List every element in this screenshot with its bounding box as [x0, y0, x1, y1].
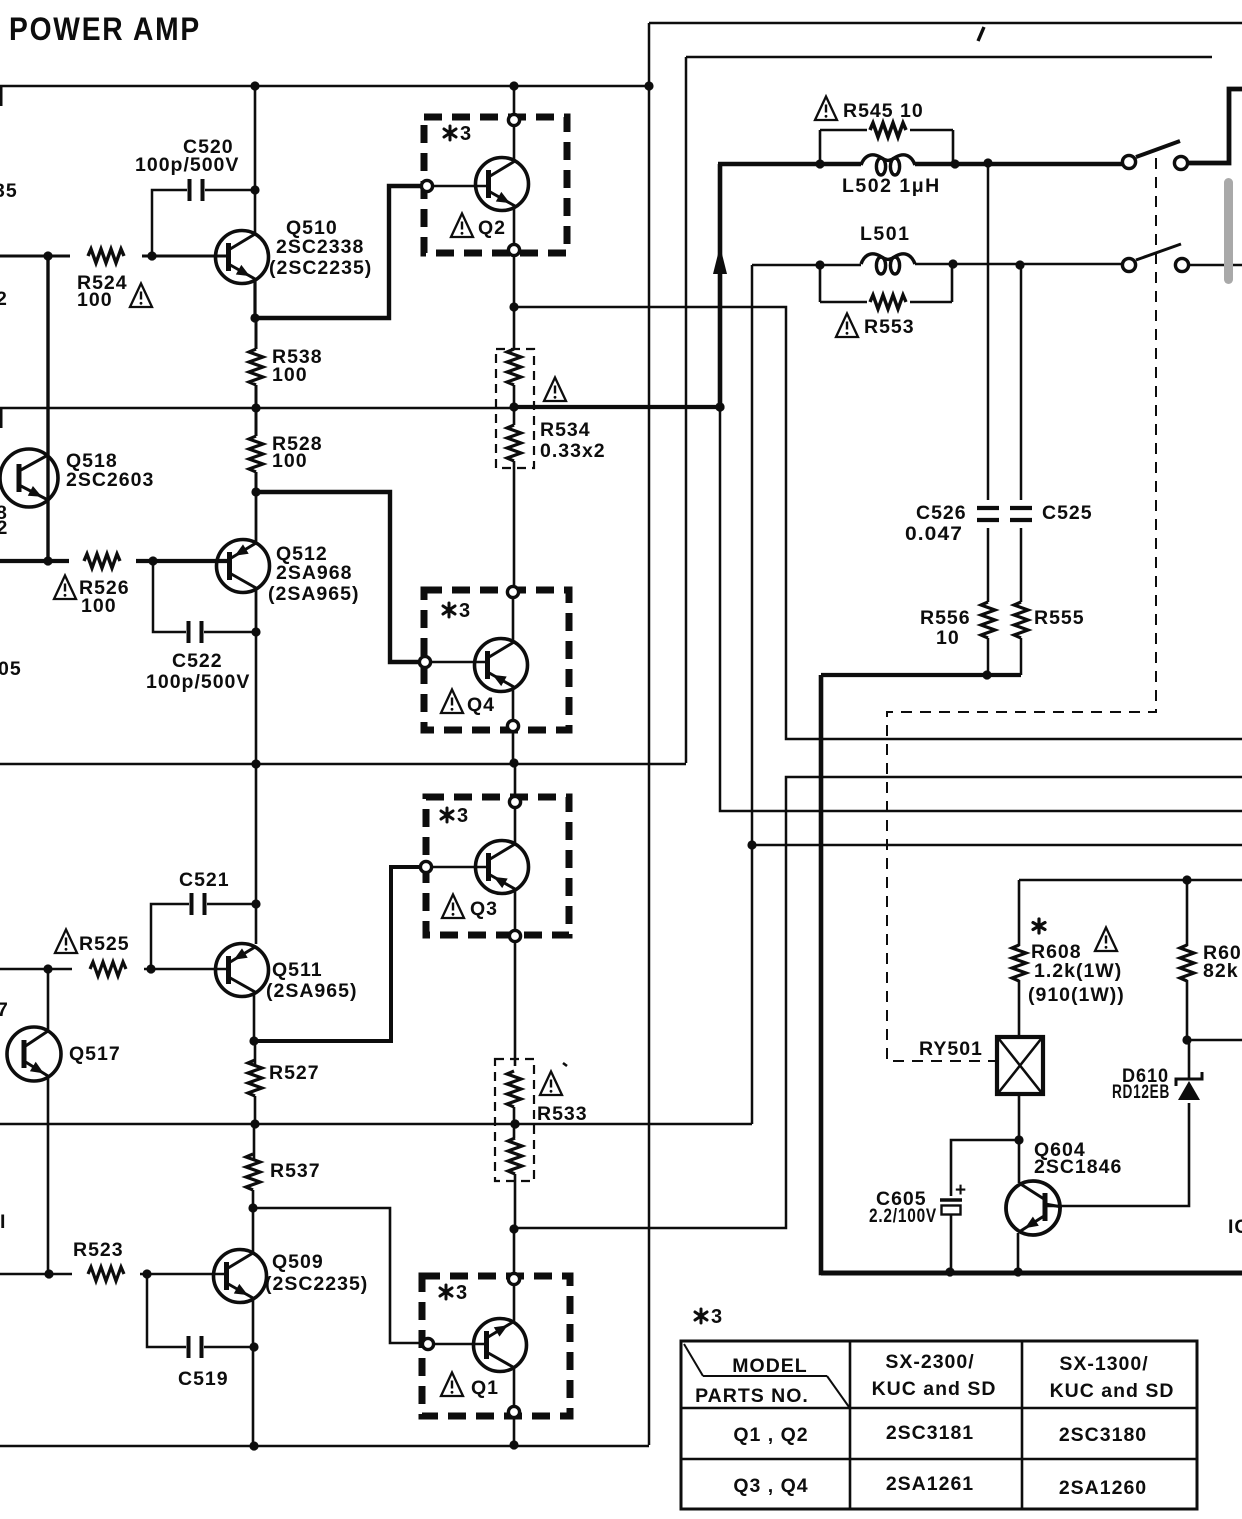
dashed box Q3 *3 [426, 797, 569, 935]
wire C520 branch [152, 190, 187, 256]
wire Q2 emitter [513, 206, 516, 243]
svg-text:3: 3 [460, 123, 471, 145]
wire Q512 base rail thick [0, 559, 230, 563]
wire L501 line right [915, 263, 1122, 266]
svg-text:3: 3 [457, 805, 468, 827]
wire C521 to collector [207, 903, 256, 906]
junction y86 end x649 [644, 81, 653, 90]
wire sense line y307 [514, 307, 1242, 739]
svg-text:C521: C521 [179, 869, 230, 891]
junction C605/rail [945, 1267, 954, 1276]
wire Q1 base lead [435, 1343, 486, 1346]
wire thick bottom rail right [821, 1271, 1242, 1276]
svg-text:3: 3 [711, 1306, 722, 1328]
transistor Q511 [216, 944, 269, 997]
svg-text:PARTS NO.: PARTS NO. [695, 1385, 809, 1407]
marker *3 Q1 box [440, 1282, 467, 1304]
wire stub left edge top [0, 86, 3, 106]
svg-text:R533: R533 [537, 1103, 588, 1125]
junction R534 mid y408 [509, 402, 518, 411]
wire Q604 emitter lead [1017, 1233, 1020, 1271]
dashed box Q2 *3 [424, 117, 567, 253]
dashed box R533 [495, 1059, 534, 1181]
svg-text:2SC3180: 2SC3180 [1059, 1424, 1147, 1446]
resistor R555 [1014, 602, 1028, 638]
wire x988 mid [987, 528, 990, 602]
node Q1 top [508, 1273, 519, 1284]
svg-text:10: 10 [936, 627, 960, 649]
svg-text:I: I [0, 1211, 6, 1233]
wire x256 y764 to Q511 [255, 764, 258, 944]
transistor Q512 [217, 540, 270, 593]
wire frame corner x649 top [648, 23, 651, 86]
wire R533 to y1229 [514, 1174, 517, 1229]
dashed box R534 [496, 349, 534, 468]
capacitor C605 (electrolytic) [940, 1200, 962, 1215]
wire Q604 collector [1047, 1103, 1189, 1206]
tick near R533 triangle [563, 1063, 567, 1066]
junction Q510 emitter branch [250, 313, 259, 322]
junction x48 base [43, 556, 52, 565]
wire Q4 top lead [512, 599, 515, 642]
svg-text:POWER AMP: POWER AMP [9, 11, 201, 47]
switch SP contact upper left [1122, 155, 1135, 168]
node Q2 base [421, 180, 432, 191]
junction x255/y1124 [250, 1119, 259, 1128]
wire branch to Q1 base [253, 1208, 421, 1343]
svg-text:100p/500V: 100p/500V [146, 671, 250, 693]
transistor Q517 [7, 1027, 61, 1081]
resistor R525 [90, 962, 126, 976]
wire thick rail x821 down [821, 675, 1242, 1273]
svg-text:2SA1261: 2SA1261 [886, 1473, 974, 1495]
svg-text:100: 100 [272, 364, 308, 386]
junction x514/y1229 [509, 1224, 518, 1233]
wire into R538 [255, 318, 258, 349]
junction C519 right [249, 1342, 258, 1351]
wire R538 to y408 [255, 385, 258, 408]
warning triangle R534 [544, 378, 566, 402]
svg-text:R556: R556 [920, 607, 971, 629]
transistor Q509 [214, 1250, 267, 1303]
wire after lower switch [1190, 264, 1242, 267]
svg-text:100p/500V: 100p/500V [135, 154, 239, 176]
wire Q510 emitter down [253, 279, 256, 318]
svg-text:Q4: Q4 [467, 694, 495, 716]
svg-text:KUC and SD: KUC and SD [1050, 1380, 1175, 1402]
transistor Q4 [475, 639, 528, 692]
wire between R533 halves [513, 1107, 516, 1138]
transistor Q510 [216, 231, 269, 284]
capacitor C525 [1010, 508, 1032, 520]
wire x514 top [513, 86, 516, 113]
junction x718 y408b [715, 402, 724, 411]
junction C526 top [983, 158, 992, 167]
svg-text:1.2k(1W): 1.2k(1W) [1034, 960, 1122, 982]
loop R545 top [820, 129, 953, 132]
junction C521 right [251, 899, 260, 908]
wire rail y408 left thin [0, 407, 514, 410]
wire sense rail y845 [752, 844, 1242, 847]
dashed relay linkage [887, 158, 1156, 1061]
svg-text:(2SC2235): (2SC2235) [265, 1273, 368, 1295]
wire between R534 halves [513, 385, 516, 425]
wire Q1 bottom lead [513, 1367, 516, 1405]
wire R609 bottom lead [1186, 980, 1189, 1040]
svg-text:0.047: 0.047 [905, 523, 963, 545]
warning triangle R545 [815, 97, 837, 121]
wire y408 to R528 [255, 408, 258, 436]
junction x256/y764 [251, 759, 260, 768]
junction C520 tap [147, 251, 156, 260]
wire y1040 to edge [1187, 1039, 1242, 1042]
node Q1 base [422, 1338, 433, 1349]
svg-text:R553: R553 [864, 316, 915, 338]
svg-text:3: 3 [456, 1282, 467, 1304]
wire base branch to C605 [951, 1140, 1019, 1196]
diode D610 (zener) [1176, 1072, 1202, 1100]
wire Q512 collector down [255, 589, 258, 632]
capacitor C522 [189, 621, 202, 643]
junction Q512 emitter [251, 487, 260, 496]
svg-text:C526: C526 [916, 502, 967, 524]
junction x514/y86 [509, 81, 518, 90]
wire Q511 base rail [0, 968, 229, 971]
warning triangle R553 [836, 314, 858, 338]
node Q4 top [507, 586, 518, 597]
transistor Q518 [0, 449, 58, 507]
svg-text:Q517: Q517 [69, 1043, 121, 1065]
wire x1021 low [1020, 638, 1023, 675]
switch contact lower right [1175, 258, 1188, 271]
junction L502 right [950, 159, 959, 168]
resistor R553 [870, 295, 906, 309]
svg-text:(2SA965): (2SA965) [268, 583, 359, 605]
loop R553 bottom [820, 301, 952, 304]
transistor Q604 [1006, 1181, 1062, 1235]
junction y307 tap [509, 302, 518, 311]
svg-text:2SC1846: 2SC1846 [1034, 1156, 1122, 1178]
svg-text:L502 1μH: L502 1μH [842, 175, 941, 197]
wire Q3 base lead [433, 866, 488, 869]
wire stub left edge mid [0, 408, 3, 428]
warning triangle R533 [540, 1072, 562, 1096]
warning triangle R608 [1095, 928, 1117, 952]
svg-text:Q1 , Q2: Q1 , Q2 [733, 1424, 808, 1446]
junction C522 right [251, 627, 260, 636]
wire R528 to Q512 junction [255, 472, 258, 492]
junction Q511/R527 [249, 1036, 258, 1045]
junction x514/y764 [509, 758, 518, 767]
inductor L501 [861, 254, 915, 274]
wire Q2 collector [513, 127, 516, 161]
junction x254 bottom rail [249, 1441, 258, 1450]
wire Q1 top lead [513, 1286, 516, 1322]
warning triangle R526 [54, 576, 76, 600]
svg-text:C522: C522 [172, 650, 223, 672]
svg-text:100: 100 [272, 450, 308, 472]
svg-text:0.33x2: 0.33x2 [540, 440, 606, 462]
table frame [681, 1341, 1197, 1509]
wire vertical x752 from L501 [751, 265, 754, 1124]
svg-text:7: 7 [0, 999, 9, 1021]
junction y880/x1187 [1182, 875, 1191, 884]
svg-text:Q509: Q509 [272, 1251, 324, 1273]
wire thick y675 [821, 673, 1021, 677]
wire Q4 to y764 [512, 733, 515, 763]
junction C525 top [1015, 260, 1024, 269]
loop R545 left [819, 130, 822, 164]
wire C605 to rail [950, 1214, 953, 1271]
wire C519 branch [147, 1274, 186, 1347]
svg-text:RD12EB: RD12EB [1112, 1081, 1170, 1103]
wire rail y86 from left [0, 85, 649, 88]
wire Q3 to R533 [514, 943, 517, 1066]
svg-text:35: 35 [0, 180, 18, 202]
junction C521 tap [146, 964, 155, 973]
svg-text:C525: C525 [1042, 502, 1093, 524]
wire Q509 collector up [252, 1208, 255, 1253]
wire y764 to Q3 [514, 764, 517, 795]
wire y880 rail [1019, 879, 1242, 882]
wire bottom rail y1446 [0, 1445, 649, 1448]
warning triangle R524 [130, 284, 152, 308]
loop R553 right [951, 264, 954, 302]
wire Q604 base lead [1018, 1140, 1021, 1183]
wire thick after upper switch [1189, 89, 1242, 163]
resistor R526 [84, 554, 120, 568]
warning triangle Q1 [441, 1373, 463, 1397]
node Q2 bottom [508, 244, 519, 255]
svg-text:2SA1260: 2SA1260 [1059, 1477, 1147, 1499]
svg-text:3: 3 [459, 600, 470, 622]
wire R533 sense to rail y778 [514, 777, 1242, 1228]
marker *3 table [695, 1306, 722, 1328]
svg-text:C519: C519 [178, 1368, 229, 1390]
node Q3 top [509, 796, 520, 807]
svg-text:2: 2 [0, 288, 8, 310]
warning triangle Q2 [451, 214, 473, 238]
junction C519 tap [142, 1269, 151, 1278]
wire R537 to junction [252, 1190, 255, 1208]
svg-text:05: 05 [0, 658, 22, 680]
resistor R523 [88, 1267, 124, 1281]
warning triangle Q3 [442, 895, 464, 919]
junction C522 tap [148, 556, 157, 565]
marker *3 Q3 box [441, 805, 468, 827]
wire D610 top lead [1188, 1040, 1191, 1079]
resistor R533 lower [508, 1138, 522, 1174]
wire Q511 down [253, 993, 256, 1041]
svg-text:(2: (2 [0, 517, 8, 539]
svg-text:R527: R527 [269, 1062, 320, 1084]
wire x1021 mid [1020, 528, 1023, 602]
wire R527 to y1124 [254, 1096, 257, 1124]
junction R537/Q509 [248, 1203, 257, 1212]
resistor R528 [249, 436, 263, 472]
arrowhead on x718 [713, 246, 727, 274]
junction x515/y1124 [510, 1119, 519, 1128]
node Q4 base [419, 656, 430, 667]
wire R608 bottom lead [1018, 980, 1021, 1037]
resistor R524 [88, 249, 124, 263]
wire thick Q511 to Q3 base [254, 867, 419, 1041]
junction L501 right [948, 259, 957, 268]
wire thick x718 up [718, 164, 723, 407]
svg-text:Q3 , Q4: Q3 , Q4 [733, 1475, 808, 1497]
wire second frame y57 [686, 56, 1212, 59]
wire thick y164 after L502 [915, 162, 1122, 167]
svg-text:R523: R523 [73, 1239, 124, 1261]
junction x255/y86 [250, 81, 259, 90]
grey scan bar right edge [1224, 178, 1233, 284]
wire x1021 upper [1020, 265, 1023, 500]
wire L501 line left [752, 264, 861, 267]
wire thick vertical x48 [46, 256, 49, 561]
resistor R609 82k [1180, 945, 1194, 981]
svg-text:2SC2338: 2SC2338 [276, 236, 364, 258]
svg-text:SX-1300/: SX-1300/ [1059, 1353, 1148, 1375]
junction x1187/y1040 [1182, 1035, 1191, 1044]
wire thick to Q2 base node [255, 186, 420, 318]
wire long vertical x686 [685, 57, 688, 763]
wire sense rail y811 [720, 408, 1242, 811]
wire R608 top lead [1018, 880, 1021, 946]
wire y1229 to Q1 [513, 1229, 516, 1272]
wire Q509Q510 base rail y256 segments [0, 255, 229, 258]
junction x49/y1274 [44, 1269, 53, 1278]
svg-text:R555: R555 [1034, 607, 1085, 629]
wire Q3 top lead [514, 809, 517, 844]
svg-text:R545 10: R545 10 [843, 100, 924, 122]
warning triangle Q4 [441, 690, 463, 714]
marker *3 Q4 box [443, 600, 470, 622]
junction L502 left [815, 159, 824, 168]
wire Q1 to bottom rail [513, 1419, 516, 1446]
wire x988 low [987, 638, 990, 675]
svg-text:KUC and SD: KUC and SD [872, 1378, 997, 1400]
wire C522 branch [153, 561, 186, 632]
warning triangle R525 [55, 930, 77, 954]
wire thick y164 to switch [718, 162, 861, 167]
svg-text:100: 100 [81, 595, 117, 617]
wire x256 to y764 [255, 632, 258, 764]
wire mid rail y764 [0, 763, 686, 766]
switch contact lower left [1122, 258, 1135, 271]
svg-text:R534: R534 [540, 419, 591, 441]
svg-text:R525: R525 [79, 933, 130, 955]
resistor R534 lower [507, 425, 521, 461]
capacitor C519 [189, 1336, 202, 1358]
wire x255 collector top [254, 86, 257, 233]
resistor R608 [1012, 945, 1026, 981]
tick mark top [978, 27, 984, 41]
switch lever upper [1136, 141, 1180, 157]
dashed box Q4 *3 [424, 590, 569, 730]
wire R609 top lead [1186, 880, 1189, 946]
wire Q512 emitter up [255, 492, 258, 543]
marker *3 Q2 box [444, 123, 471, 145]
junction x514 bottom rail [509, 1440, 518, 1449]
capacitor C526 [977, 508, 999, 520]
wire top frame y24 [649, 22, 1242, 25]
svg-text:82k: 82k [1203, 960, 1239, 982]
loop R553 left [819, 265, 822, 302]
node Q2 top [508, 114, 519, 125]
junction y675 x987 [982, 670, 991, 679]
node Q3 base [420, 861, 431, 872]
wire x48 Q517 collector [47, 969, 50, 1032]
switch SP contact upper right [1174, 156, 1187, 169]
relay coil RY501 [997, 1037, 1043, 1094]
svg-text:MODEL: MODEL [732, 1355, 807, 1377]
svg-text:2SC3181: 2SC3181 [886, 1422, 974, 1444]
junction x256/y408 [251, 403, 260, 412]
transistor Q3 [476, 841, 529, 894]
wire Q509 base rail [0, 1273, 227, 1276]
dashed box Q1 *3 [422, 1276, 570, 1416]
svg-text:Q1: Q1 [471, 1377, 499, 1399]
wire C519 to emitter [204, 1346, 254, 1349]
resistor R537 [246, 1154, 260, 1190]
svg-text:L501: L501 [860, 223, 910, 245]
wire x988 upper [987, 163, 990, 500]
transistor Q1 [474, 1319, 527, 1372]
wire Q3 bottom lead [514, 889, 517, 929]
svg-text:RY501: RY501 [919, 1038, 983, 1060]
junction x48/y969 [43, 964, 52, 973]
svg-text:(2SA965): (2SA965) [266, 980, 357, 1002]
wire long vertical x649 [648, 86, 651, 1445]
svg-text:2SA968: 2SA968 [276, 562, 352, 584]
wire rail y1124 [0, 1123, 752, 1126]
resistor R533 upper [507, 1071, 521, 1107]
svg-text:Q2: Q2 [478, 217, 506, 239]
wire C521 branch [151, 904, 189, 969]
node Q4 bottom [507, 720, 518, 731]
junction base/x48 [43, 251, 52, 260]
node Q1 bottom [508, 1406, 519, 1417]
junction y408/x718 [715, 402, 724, 411]
wire RY501 to base junction [1018, 1094, 1021, 1140]
wire x48 Q517 emitter [47, 1077, 50, 1274]
wire y1124 to R537 [253, 1124, 256, 1159]
junction C520 right [250, 185, 259, 194]
wire Q4 base lead [432, 661, 487, 664]
svg-text:2.2/100V: 2.2/100V [869, 1205, 937, 1227]
node Q3 bottom [509, 930, 520, 941]
svg-text:(2SC2235): (2SC2235) [269, 257, 372, 279]
wire Q509 emitter down [252, 1299, 255, 1446]
resistor R545 [870, 123, 906, 137]
wire Q2 bottom to R534 [513, 257, 516, 349]
wire C522 to collector [204, 631, 256, 634]
svg-text:100: 100 [77, 289, 113, 311]
resistor R556 [981, 602, 995, 638]
transistor Q2 [476, 158, 529, 211]
svg-text:SX-2300/: SX-2300/ [885, 1351, 974, 1373]
marker * R608 [1033, 919, 1045, 933]
wire Q4 bottom lead [512, 687, 515, 719]
resistor R527 [248, 1060, 262, 1096]
capacitor C520 [190, 179, 203, 201]
capacitor C521 [192, 893, 205, 915]
wire R527 top [254, 1041, 257, 1065]
junction R533 mid y1124 [510, 1119, 519, 1128]
wire Q2 base lead [434, 185, 488, 188]
wire thick to Q4 base node [256, 492, 418, 662]
svg-text:2SC2603: 2SC2603 [66, 469, 154, 491]
